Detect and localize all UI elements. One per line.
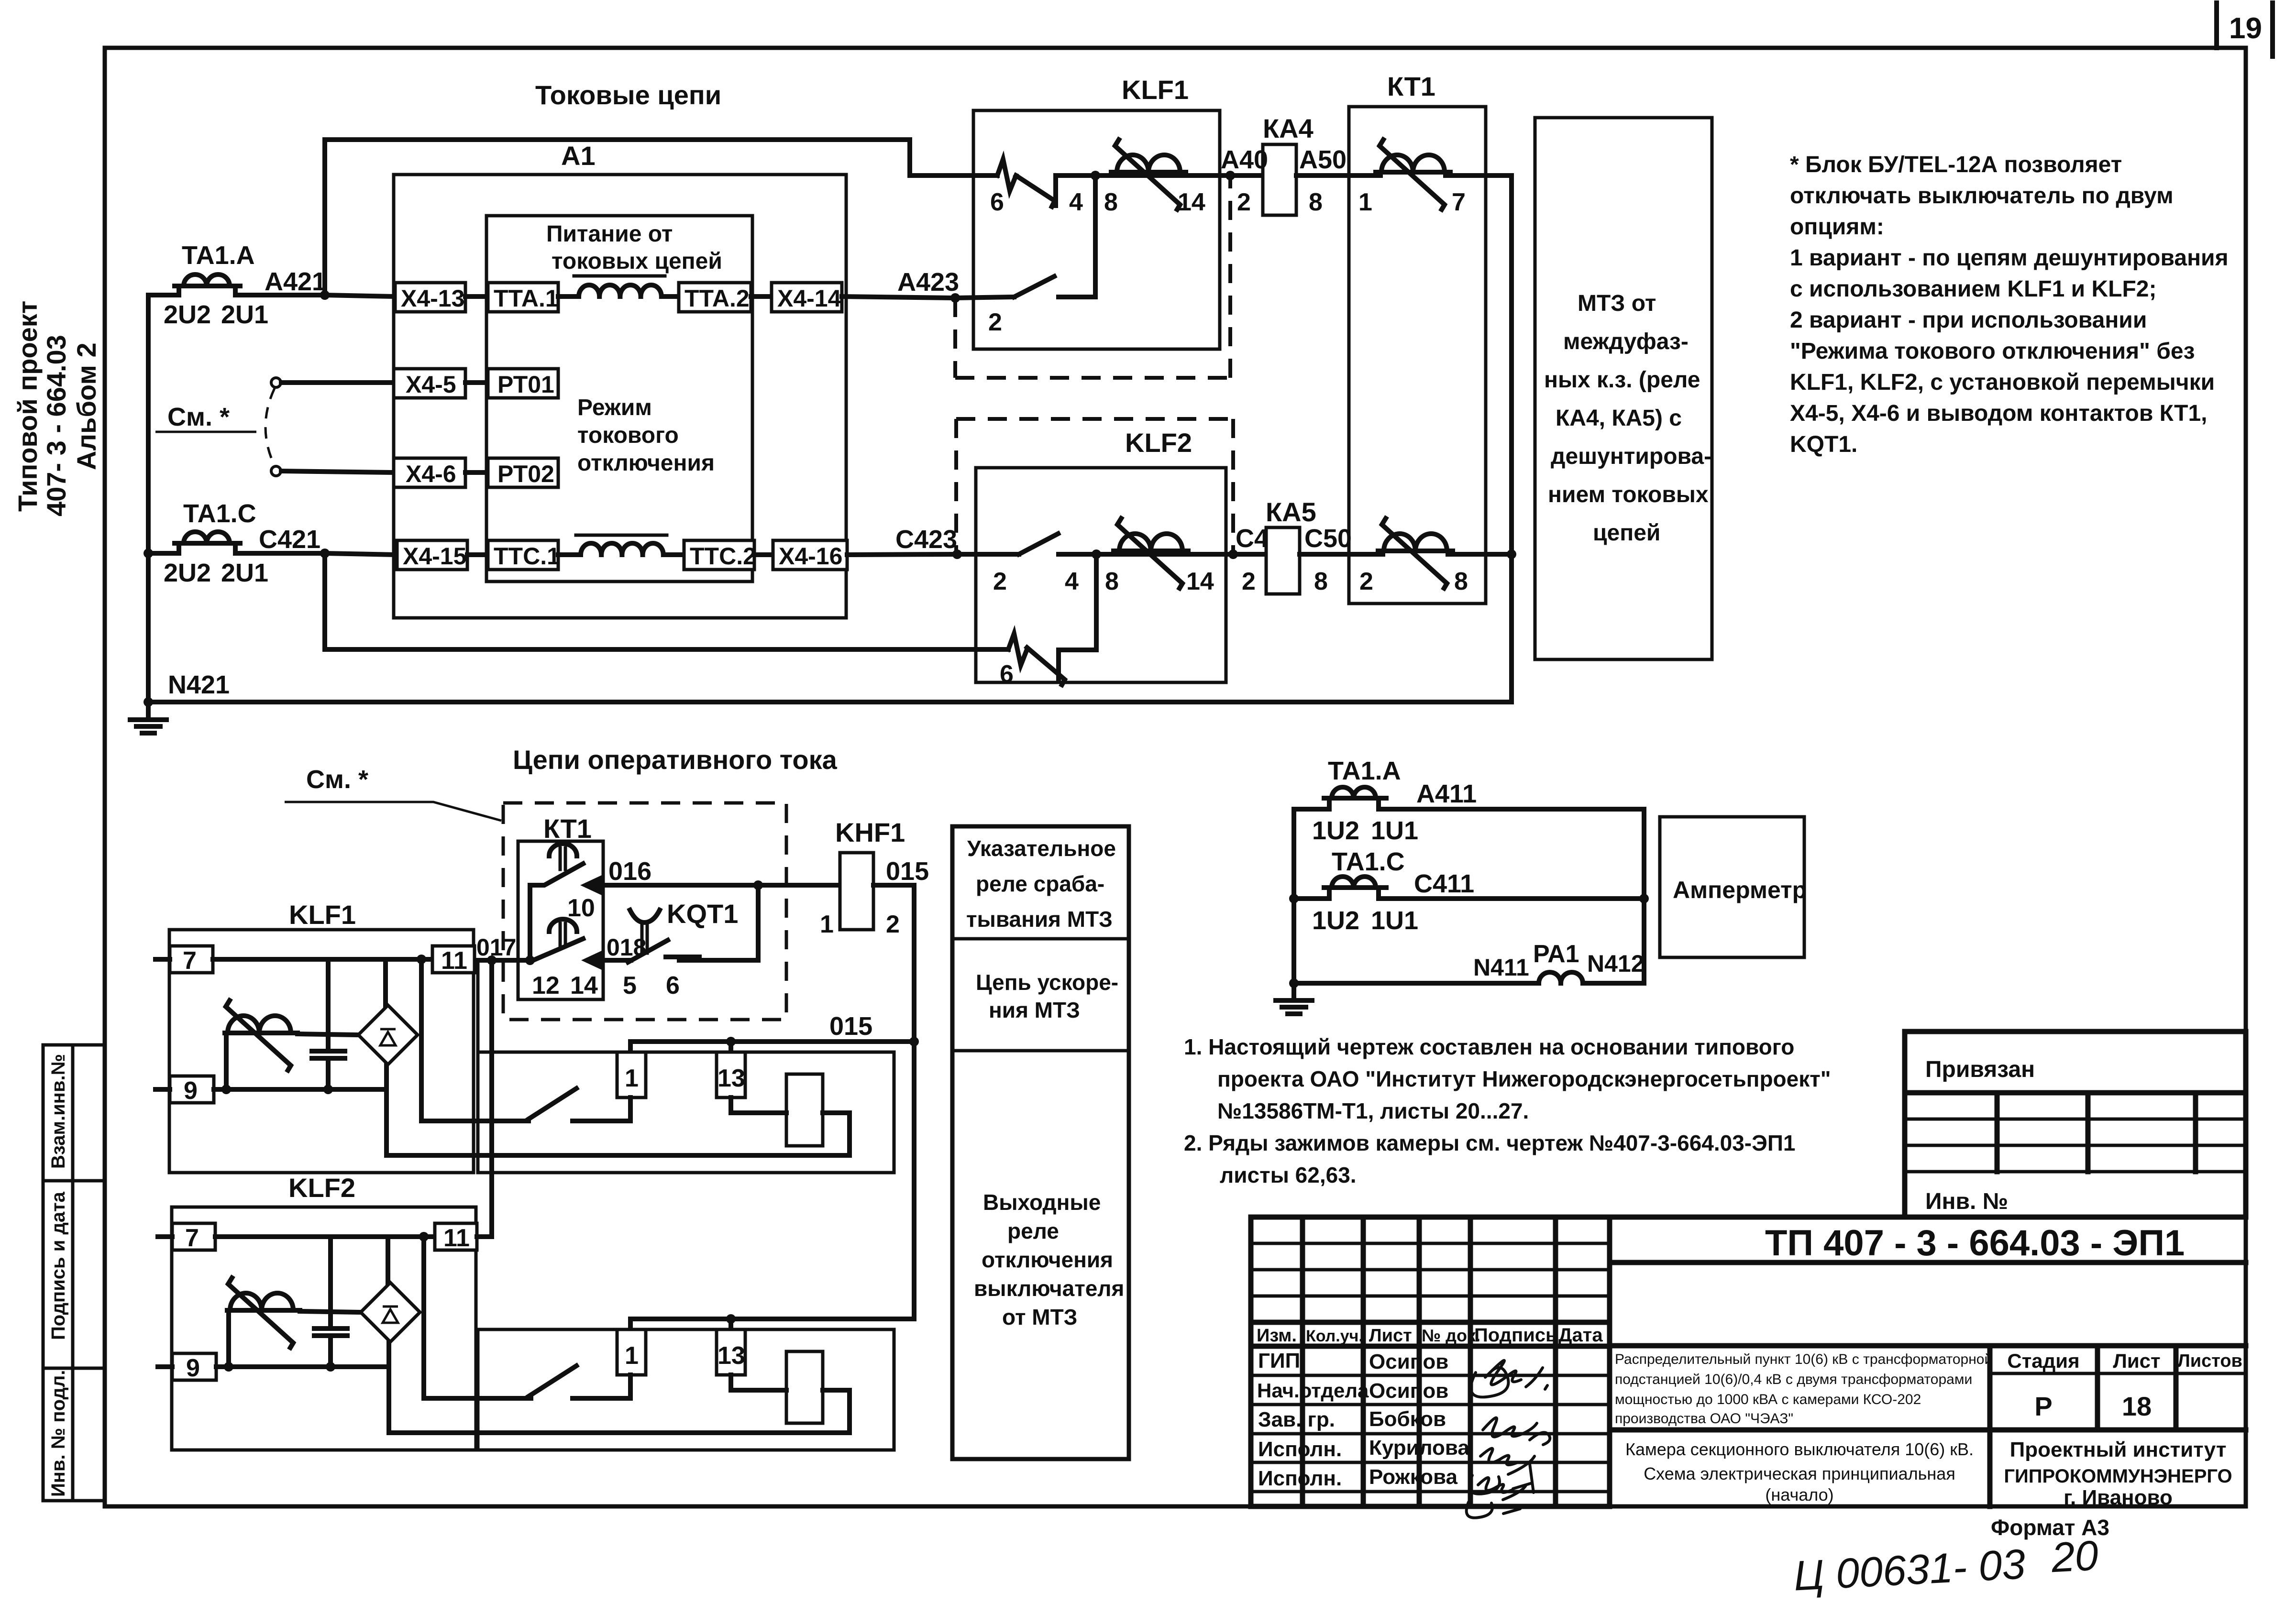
- coil symbol KLF2: [227, 1278, 300, 1348]
- svg-text:цепей: цепей: [1593, 520, 1660, 546]
- switch contact circle upper (X4-5 jumper): [271, 378, 281, 387]
- node C40: [1186, 549, 1256, 595]
- bridge top leg KLF2: [386, 1237, 390, 1283]
- svg-text:Осипов: Осипов: [1369, 1379, 1448, 1403]
- svg-text:мощностью до 1000 кВА с камера: мощностью до 1000 кВА с камерами КСО-202: [1615, 1392, 1921, 1407]
- svg-text:Инв. № подл.: Инв. № подл.: [48, 1370, 69, 1497]
- svg-text:1U1: 1U1: [1371, 906, 1418, 935]
- coil to bridge KLF1: [298, 1034, 358, 1035]
- svg-text:KLF1, KLF2, с установкой перем: KLF1, KLF2, с установкой перемычки: [1790, 370, 2215, 395]
- inventory handwriting: [1792, 1531, 2100, 1599]
- wire 017 from KLF1-11 to contact 12: [475, 955, 535, 965]
- node at right vertical: [1507, 549, 1516, 559]
- svg-text:1: 1: [820, 911, 834, 938]
- numbered notes: [1184, 1034, 1831, 1187]
- wire C421 to X4-15: [325, 553, 397, 555]
- svg-text:Питание от: Питание от: [546, 221, 673, 247]
- svg-text:реле: реле: [1007, 1219, 1059, 1243]
- terminal box PT02: [488, 458, 558, 487]
- svg-text:тывания МТЗ: тывания МТЗ: [966, 907, 1113, 932]
- svg-text:ных к.з. (реле: ных к.з. (реле: [1544, 367, 1700, 393]
- right vertical wire down to N421: [1509, 176, 1514, 702]
- wire 016 with arrow: [580, 857, 758, 895]
- svg-text:КТ1: КТ1: [543, 813, 592, 844]
- svg-text:А40: А40: [1221, 145, 1268, 174]
- terminal 1 K1: [617, 1052, 646, 1098]
- svg-text:А423: А423: [897, 268, 959, 296]
- capacitor KLF1: [312, 959, 345, 1089]
- wire node2 to KA4: [1230, 173, 1263, 178]
- KLF1 relay coil symbol: [1111, 140, 1186, 209]
- terminal 1 K2: [617, 1329, 646, 1375]
- winding TTA between TTA.1 and TTA.2: [558, 276, 679, 296]
- svg-text:отключать выключатель по двум: отключать выключатель по двум: [1790, 183, 2174, 209]
- svg-text:Р: Р: [2034, 1391, 2052, 1421]
- terminal box TTA.1: [488, 283, 559, 312]
- svg-text:015: 015: [886, 857, 929, 886]
- svg-text:1: 1: [625, 1342, 639, 1370]
- current transformer TA1.A (ammeter): [1294, 757, 1644, 845]
- svg-text:13: 13: [717, 1342, 745, 1370]
- svg-text:8: 8: [1104, 188, 1118, 216]
- svg-text:Х4-16: Х4-16: [779, 543, 842, 570]
- svg-text:опциям:: опциям:: [1790, 214, 1884, 240]
- bridge bottom leg KLF1: [384, 1065, 389, 1155]
- svg-text:7: 7: [183, 947, 197, 975]
- wire KA4 to KT1: [1296, 176, 1380, 216]
- svg-text:Х4-14: Х4-14: [777, 285, 841, 312]
- svg-text:Стадия: Стадия: [2007, 1350, 2079, 1372]
- wire X4-13 to TTA.1: [465, 294, 488, 299]
- node 015 top junction: [829, 1012, 919, 1046]
- node A423: [897, 268, 960, 303]
- link 11-wire to output box K1: [476, 960, 480, 1052]
- relay coil KA4: [1221, 113, 1347, 215]
- wire X4-6 to PT02: [465, 470, 488, 475]
- node pin 8 KLF1: [1091, 171, 1118, 216]
- wire X4-16 to C423 node: [847, 554, 957, 555]
- svg-text:Х4-15: Х4-15: [403, 543, 466, 570]
- svg-text:Х4-6: Х4-6: [406, 461, 456, 487]
- svg-text:ТА1.С: ТА1.С: [1332, 847, 1405, 876]
- svg-text:Выходные: Выходные: [983, 1190, 1101, 1215]
- title Токовые цепи: [535, 80, 721, 110]
- node 13 feed K1: [726, 1037, 736, 1052]
- svg-text:KLF2: KLF2: [288, 1173, 355, 1203]
- svg-text:KQT1: KQT1: [667, 899, 738, 929]
- terminal 9 KLF1: [155, 1076, 214, 1105]
- terminal box TTA.2: [679, 283, 751, 312]
- node C411 left: [1289, 894, 1299, 903]
- svg-text:листы 62,63.: листы 62,63.: [1220, 1163, 1357, 1187]
- terminal box X4-5: [394, 369, 465, 398]
- wire X4-5 to PT01: [465, 380, 488, 385]
- wire KQT1 to 016 node: [679, 885, 758, 960]
- current transformer TA1.A: [148, 241, 325, 329]
- terminal box X4-14: [772, 283, 842, 312]
- indicating relay KHF1: [835, 817, 905, 930]
- svg-text:КТ1: КТ1: [1387, 71, 1435, 101]
- node 13 feed K2: [726, 1314, 736, 1329]
- svg-text:Х4-5: Х4-5: [406, 371, 456, 398]
- svg-text:8: 8: [1314, 568, 1328, 595]
- contact blade K2: [529, 1366, 630, 1398]
- svg-text:19: 19: [2229, 12, 2262, 45]
- node C421 on left bus: [143, 549, 153, 558]
- svg-text:Рожкова: Рожкова: [1369, 1465, 1458, 1489]
- page number box 19 (top right corner stamp): [2217, 3, 2273, 56]
- svg-text:10: 10: [567, 894, 595, 922]
- svg-text:Изм.: Изм.: [1257, 1326, 1297, 1346]
- svg-text:С50: С50: [1304, 524, 1352, 553]
- svg-text:12: 12: [532, 972, 560, 999]
- terminal box X4-16: [773, 540, 847, 570]
- svg-text:2: 2: [886, 911, 900, 938]
- svg-text:KLF1: KLF1: [1122, 75, 1189, 105]
- function table (Указательное реле...): [952, 826, 1129, 1459]
- svg-text:КА4: КА4: [1263, 113, 1314, 143]
- svg-text:Х4-13: Х4-13: [401, 285, 464, 312]
- svg-text:18: 18: [2122, 1391, 2152, 1421]
- svg-text:Нач.отдела: Нач.отдела: [1257, 1379, 1369, 1402]
- svg-text:20: 20: [2050, 1531, 2099, 1581]
- svg-text:8: 8: [1454, 568, 1468, 595]
- svg-text:Типовой проект: Типовой проект: [12, 301, 43, 512]
- title block revision table: [1251, 1217, 1610, 1506]
- wire C423 into KLF2 contact 2: [957, 534, 1096, 595]
- node pin 8 KLF2: [1092, 549, 1119, 595]
- wire KT1 to right vertical: [1446, 176, 1512, 216]
- svg-text:(начало): (начало): [1765, 1485, 1833, 1504]
- svg-text:Х4-5, Х4-6 и выводом контактов: Х4-5, Х4-6 и выводом контактов КТ1,: [1790, 401, 2208, 426]
- right feed vertical KLF2: [424, 1237, 531, 1398]
- svg-text:№ док.: № док.: [1422, 1326, 1480, 1345]
- KT1 time contact 10 (upper): [530, 844, 595, 961]
- relay box KLF2 (operative circuit): [172, 1173, 476, 1450]
- signatures (handwritten): [1467, 1361, 1550, 1518]
- svg-text:ГИПРОКОММУНЭНЕРГО: ГИПРОКОММУНЭНЕРГО: [2004, 1466, 2232, 1487]
- relay coil KA5: [1266, 497, 1352, 594]
- KT1 time contact 12-14 (lower): [531, 919, 598, 999]
- svg-text:А421: А421: [265, 267, 326, 296]
- node C423: [895, 525, 962, 559]
- terminal box X4-15: [397, 540, 467, 570]
- svg-text:1U2: 1U2: [1312, 906, 1359, 935]
- svg-text:KLF1: KLF1: [289, 900, 356, 930]
- bridge top leg KLF1: [383, 959, 388, 1005]
- Ammeter box: [1660, 817, 1807, 957]
- relay coil K2: [786, 1351, 823, 1423]
- wire C40 to KA5: [1233, 524, 1283, 554]
- svg-text:Осипов: Осипов: [1369, 1350, 1448, 1373]
- svg-text:Инв. №: Инв. №: [1925, 1189, 2008, 1214]
- title block lower right: [1610, 1346, 2246, 1509]
- node KLF1 bridge top: [417, 955, 426, 964]
- wire 015 run K1: [630, 1042, 914, 1052]
- relay box KLF2: [976, 428, 1226, 682]
- svg-text:6: 6: [990, 188, 1004, 216]
- svg-text:ТП 407 - 3 - 664.03 - ЭП1: ТП 407 - 3 - 664.03 - ЭП1: [1765, 1223, 2185, 1263]
- left vertical bus wire: [146, 295, 151, 702]
- svg-text:Бобков: Бобков: [1369, 1407, 1446, 1431]
- terminal box X4-13: [395, 283, 465, 312]
- wire from C421 node down and right to KLF2 contact 6: [325, 553, 1008, 649]
- svg-text:проекта ОАО "Институт Нижегоро: проекта ОАО "Институт Нижегородскэнергос…: [1217, 1066, 1831, 1091]
- bridge bottom leg KLF2: [386, 1342, 391, 1433]
- coil to bridge KLF2: [300, 1311, 361, 1312]
- svg-text:8: 8: [1105, 568, 1119, 595]
- node N421: [143, 697, 153, 707]
- svg-text:016: 016: [608, 857, 651, 886]
- terminal box TTC.2: [684, 540, 756, 570]
- wire 7 to 11 KLF1: [213, 957, 432, 962]
- node N411 left, ground: [1276, 978, 1312, 1014]
- svg-text:См. *: См. *: [306, 765, 368, 794]
- svg-text:2U1: 2U1: [221, 559, 268, 587]
- terminal 7 KLF2: [158, 1223, 215, 1252]
- terminal box X4-6: [394, 458, 465, 487]
- svg-text:Цепь ускоре-: Цепь ускоре-: [976, 970, 1118, 995]
- node A421: [265, 267, 330, 300]
- svg-text:2: 2: [988, 308, 1002, 336]
- wire N411 with PA1 winding: [1294, 940, 1645, 983]
- svg-text:9: 9: [184, 1077, 198, 1105]
- main title ТП 407-3-664.03-ЭП1: [1610, 1217, 2246, 1506]
- wire to KHF1: [758, 885, 840, 938]
- wire TTC.2 to X4-16: [754, 552, 773, 557]
- svg-text:С411: С411: [1414, 869, 1474, 898]
- svg-text:9: 9: [186, 1354, 200, 1382]
- terminal 13 K1: [717, 1052, 745, 1098]
- svg-text:отключения: отключения: [982, 1247, 1113, 1272]
- svg-text:4: 4: [1069, 188, 1083, 216]
- svg-text:Ц 00631- 03: Ц 00631- 03: [1792, 1540, 2026, 1599]
- svg-text:14: 14: [570, 972, 598, 999]
- svg-text:11: 11: [443, 1224, 470, 1252]
- svg-text:4: 4: [1065, 568, 1079, 595]
- relay box KT1 (current circuits): [1349, 71, 1486, 604]
- svg-text:Режим: Режим: [577, 395, 652, 420]
- wire coil return K2: [389, 1390, 850, 1433]
- KLF2 relay coil symbol: [1114, 518, 1188, 588]
- svg-text:Схема электрическая принципиал: Схема электрическая принципиальная: [1644, 1464, 1955, 1483]
- svg-text:2: 2: [1359, 568, 1373, 595]
- svg-text:г. Иваново: г. Иваново: [2064, 1486, 2173, 1509]
- note text asterisk block: [1790, 152, 2229, 457]
- wire to X4-5: [281, 380, 395, 385]
- svg-text:ТТС.2: ТТС.2: [690, 543, 756, 570]
- svg-text:5: 5: [623, 972, 637, 999]
- capacitor KLF2: [314, 1237, 347, 1367]
- wire 7 to 11 KLF2: [215, 1234, 435, 1239]
- title Цепи оперативного тока: [513, 745, 838, 775]
- svg-text:Подпись: Подпись: [1474, 1325, 1557, 1346]
- dashed jumper arc between circles: [265, 388, 275, 466]
- relay box KLF1: [973, 75, 1220, 349]
- svg-text:Токовые цепи: Токовые цепи: [535, 80, 721, 110]
- coil left leg KLF1: [224, 1033, 229, 1089]
- svg-text:нием токовых: нием токовых: [1548, 482, 1709, 507]
- svg-text:2U2: 2U2: [164, 300, 211, 329]
- svg-text:1: 1: [625, 1065, 639, 1092]
- bridge rectifier KLF2: [361, 1283, 420, 1342]
- Привязан stamp box: [1905, 1032, 2246, 1217]
- svg-text:1: 1: [1358, 188, 1372, 216]
- svg-text:2: 2: [1242, 568, 1256, 595]
- svg-text:2U1: 2U1: [221, 300, 268, 329]
- svg-text:С421: С421: [259, 525, 320, 554]
- terminal 13 K2: [717, 1329, 745, 1375]
- svg-text:№13586ТМ-Т1, листы 20...27.: №13586ТМ-Т1, листы 20...27.: [1217, 1098, 1529, 1123]
- wire to X4-6: [281, 471, 395, 472]
- svg-text:KHF1: KHF1: [835, 817, 905, 847]
- output relay box K2: [478, 1329, 894, 1450]
- svg-text:2. Ряды зажимов камеры см. че: 2. Ряды зажимов камеры см. чертеж №407-3…: [1184, 1131, 1796, 1155]
- coil left leg KLF2: [226, 1310, 231, 1367]
- coil symbol KLF1: [225, 1000, 298, 1070]
- KLF2 contact 6 lower feed: [1000, 554, 1096, 688]
- current transformer TA1.C: [148, 499, 325, 587]
- wire arrow into contact 14: [581, 934, 646, 970]
- leader line Cм.* top: [155, 403, 256, 432]
- node 016/015: [753, 880, 763, 890]
- terminal 11 KLF1: [432, 946, 475, 975]
- bottom internal wire KLF1: [214, 1085, 386, 1094]
- left attribute column (Взам.инв.№ / Подпись и дата / Инв.№ подл.): [43, 1045, 105, 1501]
- svg-text:ТА1.А: ТА1.А: [1328, 757, 1401, 785]
- wire KHF1 to vertical, label 015: [873, 857, 929, 938]
- top bus wire from A421 node to KLF1: [325, 140, 997, 295]
- svg-text:междуфаз-: междуфаз-: [1563, 329, 1689, 354]
- svg-text:017: 017: [476, 934, 516, 961]
- svg-text:N412: N412: [1587, 950, 1645, 977]
- svg-text:7: 7: [185, 1224, 199, 1252]
- svg-text:подстанцией 10(6)/0,4 кВ с дву: подстанцией 10(6)/0,4 кВ с двумя трансфо…: [1615, 1372, 1972, 1387]
- wire X4-15 to TTC.1: [467, 552, 488, 557]
- contact blade K1: [529, 1088, 630, 1121]
- output relay box K1: [478, 1052, 894, 1173]
- svg-text:РА1: РА1: [1533, 940, 1579, 968]
- wire 015 run K2: [630, 1319, 914, 1329]
- svg-text:Исполн.: Исполн.: [1258, 1467, 1342, 1490]
- svg-text:"Режима токового отключения" б: "Режима токового отключения" без: [1790, 339, 2195, 364]
- svg-text:отключения: отключения: [577, 450, 715, 476]
- svg-text:Подпись и дата: Подпись и дата: [48, 1191, 69, 1340]
- svg-text:Дата: Дата: [1558, 1325, 1603, 1346]
- svg-text:Исполн.: Исполн.: [1258, 1438, 1342, 1461]
- svg-text:407- 3 - 664.03: 407- 3 - 664.03: [41, 335, 71, 516]
- svg-text:С423: С423: [895, 525, 957, 554]
- svg-text:Листов: Листов: [2177, 1351, 2242, 1371]
- relay coil K1: [786, 1074, 823, 1146]
- svg-text:Камера секционного выключателя: Камера секционного выключателя 10(6) кВ.: [1625, 1439, 1974, 1459]
- svg-text:Цепи оперативного тока: Цепи оперативного тока: [513, 745, 838, 775]
- terminal 7 KLF1: [155, 946, 213, 975]
- svg-text:реле сраба-: реле сраба-: [976, 871, 1104, 896]
- svg-text:1U1: 1U1: [1371, 816, 1418, 845]
- dashed enclosure KLF1: [955, 176, 1230, 378]
- contact KQT1: [623, 899, 738, 999]
- svg-text:KLF2: KLF2: [1125, 428, 1192, 458]
- svg-text:N411: N411: [1473, 954, 1529, 981]
- wire KA5 to KT1 lower: [1300, 554, 1383, 595]
- current transformer TA1.C (ammeter): [1294, 847, 1644, 935]
- text box МТЗ: [1535, 118, 1712, 659]
- svg-text:11: 11: [441, 947, 467, 975]
- wire N421: [148, 670, 1512, 702]
- svg-text:015: 015: [829, 1012, 872, 1041]
- svg-text:1. Настоящий чертеж составлен: 1. Настоящий чертеж составлен на основан…: [1184, 1034, 1794, 1059]
- svg-text:1U2: 1U2: [1312, 816, 1359, 845]
- svg-text:8: 8: [1309, 188, 1323, 216]
- svg-text:Кол.уч.: Кол.уч.: [1306, 1327, 1363, 1345]
- svg-text:МТЗ от: МТЗ от: [1578, 291, 1656, 316]
- inner box Питание/Режим: [486, 216, 752, 582]
- wire KLF2 to node C40: [1096, 552, 1233, 557]
- KLF1 contact 2 (lower, from A423): [955, 176, 1095, 336]
- svg-text:Лист: Лист: [2113, 1350, 2160, 1372]
- svg-text:N421: N421: [168, 670, 230, 699]
- KT1 lower coil symbol: [1378, 518, 1453, 588]
- svg-text:2: 2: [993, 568, 1007, 595]
- svg-text:токовых цепей: токовых цепей: [552, 249, 722, 274]
- Формат А3: [1991, 1515, 2109, 1540]
- ground symbol left: [130, 702, 166, 733]
- winding TTC between TTC.1 and TTC.2: [558, 535, 684, 555]
- node C421: [259, 525, 330, 558]
- svg-text:13: 13: [717, 1065, 745, 1092]
- svg-text:ТТА.1: ТТА.1: [494, 285, 559, 312]
- svg-text:7: 7: [1452, 188, 1466, 216]
- ammeter circuit: left bus: [1291, 809, 1296, 983]
- svg-text:14: 14: [1186, 568, 1214, 595]
- svg-text:Альбом 2: Альбом 2: [71, 342, 101, 470]
- svg-text:2U2: 2U2: [164, 559, 211, 587]
- wire A421 to X4-13: [325, 295, 395, 296]
- svg-text:Курилова: Курилова: [1369, 1436, 1469, 1460]
- svg-text:* Блок БУ/ТЕL-12А позволяет: * Блок БУ/ТЕL-12А позволяет: [1790, 152, 2122, 177]
- svg-text:6: 6: [666, 972, 680, 999]
- wire 13 to coil K2: [731, 1375, 786, 1390]
- node 017 junction: [476, 934, 516, 965]
- svg-text:КА5: КА5: [1266, 497, 1316, 527]
- svg-text:от МТЗ: от МТЗ: [1002, 1305, 1078, 1329]
- svg-text:ТТС.1: ТТС.1: [494, 543, 560, 570]
- left margin rotated project text: [12, 301, 101, 516]
- svg-text:с использованием KLF1 и KLF2;: с использованием KLF1 и KLF2;: [1790, 276, 2156, 302]
- svg-text:Зав. гр.: Зав. гр.: [1258, 1408, 1335, 1431]
- svg-text:РТ02: РТ02: [497, 461, 554, 487]
- wire coil return K1: [386, 1113, 850, 1155]
- leader Cм.* lower: [285, 765, 501, 821]
- bottom internal wire KLF2: [216, 1362, 389, 1372]
- svg-text:14: 14: [1178, 188, 1205, 216]
- svg-text:1 вариант - по цепям дешунтиро: 1 вариант - по цепям дешунтирования: [1790, 245, 2229, 271]
- svg-text:Лист: Лист: [1369, 1326, 1412, 1346]
- svg-text:Взам.инв.№: Взам.инв.№: [48, 1054, 69, 1169]
- bridge rectifier KLF1: [358, 1005, 418, 1065]
- svg-text:2: 2: [1237, 188, 1251, 216]
- svg-text:дешунтирова-: дешунтирова-: [1551, 444, 1711, 469]
- svg-text:ТТА.2: ТТА.2: [684, 285, 750, 312]
- svg-text:Амперметр: Амперметр: [1673, 877, 1807, 903]
- long vertical 017 wire to KLF2-11: [489, 960, 494, 1237]
- svg-text:КА4, КА5) с: КА4, КА5) с: [1556, 406, 1682, 431]
- KT1 upper coil symbol: [1376, 140, 1450, 209]
- svg-text:производства ОАО "ЧЭАЗ": производства ОАО "ЧЭАЗ": [1615, 1411, 1793, 1427]
- svg-text:ГИП: ГИП: [1258, 1349, 1300, 1372]
- wire X4-14 to A423 node: [842, 296, 955, 298]
